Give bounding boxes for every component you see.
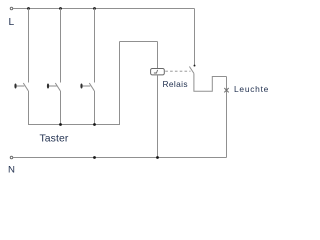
- pushbutton S1 blade: [23, 83, 28, 91]
- wire S2 bottom drop: [60, 91, 62, 125]
- wire N rail: [13, 157, 227, 159]
- wire S1 top drop: [28, 9, 30, 83]
- wire S2 top drop: [60, 9, 62, 83]
- pushbutton S1 plunger: [16, 85, 24, 87]
- relay coil K1 inner mark: [154, 70, 158, 73]
- junction dot N rail / coil: [156, 156, 159, 159]
- lamp E1 cross: [224, 88, 228, 92]
- svg-text:L: L: [9, 17, 15, 28]
- pushbutton S3 plunger: [82, 85, 90, 87]
- wire lamp drop to N rail: [226, 77, 228, 158]
- svg-text:N: N: [8, 165, 15, 176]
- relay coil K1 box: [151, 69, 165, 75]
- wire coil to N rail: [157, 75, 159, 158]
- wire L rail: [13, 8, 195, 10]
- relay contact fixed point dot: [194, 65, 196, 67]
- junction dot bus / S3: [93, 123, 96, 126]
- pushbutton S2 blade: [55, 83, 60, 91]
- svg-text:Taster: Taster: [40, 134, 69, 145]
- wire coil loop top: [120, 41, 158, 43]
- terminal circle L: [10, 7, 13, 10]
- wire S3 bottom drop: [94, 91, 96, 125]
- junction dot top rail / S2: [59, 7, 62, 10]
- pushbutton S1 head: [14, 84, 16, 89]
- junction dot top rail / S1: [27, 7, 30, 10]
- pushbutton S3 blade: [89, 83, 94, 91]
- junction dot N rail / stub: [93, 156, 96, 159]
- svg-text:Leuchte: Leuchte: [234, 84, 269, 94]
- junction dot top rail / S3: [93, 7, 96, 10]
- junction dot bus / S2: [59, 123, 62, 126]
- pushbutton S2 plunger: [49, 85, 57, 87]
- wire contact output step: [194, 73, 227, 91]
- pushbutton S2 head: [47, 84, 49, 89]
- svg-text:Relais: Relais: [163, 79, 188, 89]
- wire S3 top drop: [94, 9, 96, 83]
- wire bus riser to coil loop: [119, 42, 121, 126]
- wire coil loop down to coil: [157, 42, 159, 69]
- terminal circle N: [10, 156, 13, 159]
- wire S1 bottom drop: [28, 91, 30, 125]
- relay contact blade: [189, 67, 194, 74]
- dashed actuating link coil to contact: [165, 70, 190, 72]
- wire switch bus: [28, 124, 120, 126]
- wire L rail drop to relay contact: [194, 9, 196, 66]
- pushbutton S3 head: [80, 84, 82, 89]
